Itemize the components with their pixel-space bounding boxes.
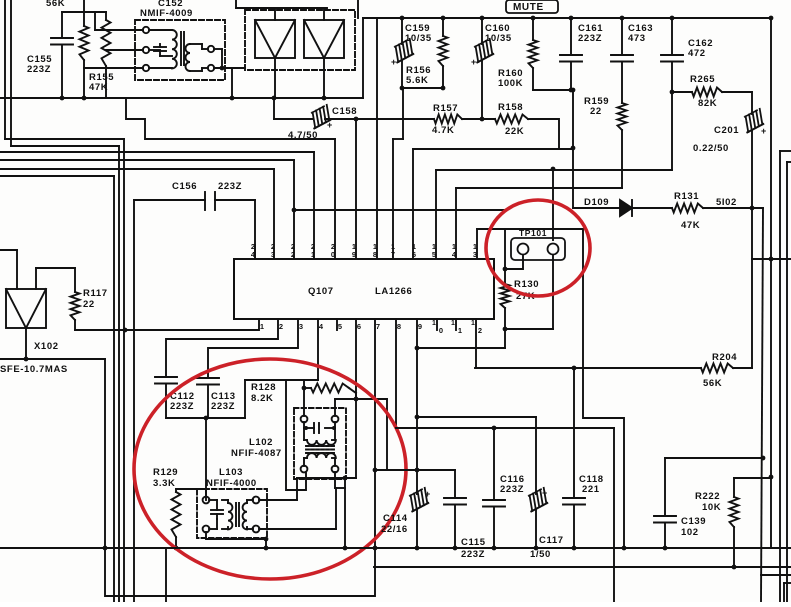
svg-text:3: 3 (271, 250, 275, 259)
crystal filter X102 (6, 289, 46, 328)
inductor L102 box (294, 408, 346, 479)
svg-text:R265: R265 (690, 74, 715, 85)
wire (176, 489, 206, 497)
svg-text:4.7/50: 4.7/50 (288, 130, 318, 141)
svg-text:9: 9 (352, 250, 356, 259)
capacitor C163 (611, 18, 633, 103)
wire (323, 58, 325, 98)
wire (206, 532, 268, 550)
label C158 (288, 106, 357, 141)
svg-text:4.7K: 4.7K (432, 125, 454, 136)
label R129 (153, 467, 178, 489)
svg-text:+: + (391, 57, 396, 67)
inductor L103 internals (209, 500, 253, 529)
svg-text:6: 6 (357, 322, 361, 331)
label C201 (693, 125, 739, 154)
label R130 (514, 279, 539, 302)
label C162 (688, 38, 713, 59)
capacitor C112 (155, 377, 177, 418)
wire pin7 long drop (373, 319, 378, 567)
inductor L103 box (197, 489, 267, 538)
wire (475, 366, 701, 371)
wire pin24 drop (254, 200, 256, 259)
filter C152 internals (149, 30, 208, 71)
wire (393, 88, 403, 139)
wire y210 (294, 209, 505, 211)
svg-text:+: + (542, 488, 547, 498)
svg-text:1: 1 (458, 326, 462, 335)
inductor L103 terminals (203, 497, 260, 533)
label C155 (27, 54, 52, 75)
svg-text:L103: L103 (219, 467, 243, 478)
svg-text:56K: 56K (703, 378, 722, 389)
wire (0, 176, 114, 602)
svg-text:R157: R157 (433, 103, 458, 114)
wire pin20 drop (334, 139, 336, 259)
svg-text:223Z: 223Z (27, 64, 51, 75)
wire y188 (456, 187, 622, 189)
wire mute bus (363, 16, 773, 21)
svg-text:NMIF-4009: NMIF-4009 (140, 8, 193, 19)
svg-text:47K: 47K (681, 220, 700, 231)
resistor R157 (434, 115, 462, 124)
wire (106, 49, 143, 51)
svg-text:L102: L102 (249, 437, 273, 448)
resistor R129 (172, 489, 181, 550)
svg-text:22/16: 22/16 (381, 524, 408, 535)
svg-text:X102: X102 (34, 341, 59, 352)
label C117 (530, 535, 564, 560)
label R265 (690, 74, 717, 109)
capacitor C115 (444, 470, 466, 550)
wire (703, 206, 763, 211)
diode D109 (573, 200, 672, 216)
capacitor C114 (405, 488, 431, 551)
svg-text:8.2K: 8.2K (251, 393, 273, 404)
detector box (245, 10, 355, 70)
wire bus1 (0, 547, 791, 549)
wire pin22 drop (292, 160, 297, 259)
svg-text:223Z: 223Z (218, 181, 242, 192)
wire (0, 168, 274, 170)
svg-text:C158: C158 (332, 106, 357, 117)
capacitor C161 (560, 18, 582, 90)
wire pin15 drop (435, 170, 437, 259)
label 5I02 (716, 197, 737, 208)
label R156 (406, 65, 431, 86)
wire pin4 (317, 319, 319, 380)
resistor R204 (701, 364, 733, 373)
label C159 (405, 23, 432, 44)
label C116 (500, 474, 525, 495)
label R117 (83, 288, 108, 310)
label C163 (628, 23, 653, 44)
resistor R131 (672, 204, 703, 213)
svg-text:10/35: 10/35 (485, 33, 512, 44)
wire pin16 drop (413, 146, 575, 259)
svg-text:+: + (761, 126, 766, 136)
filter unit 2 (304, 20, 344, 58)
svg-text:TP101: TP101 (519, 228, 547, 238)
capacitor C162 (661, 18, 683, 170)
svg-text:2: 2 (478, 326, 482, 335)
wire (417, 329, 505, 348)
capacitor C158 (307, 105, 333, 130)
wire (356, 118, 434, 120)
label C161 (578, 23, 603, 44)
label C156 (172, 181, 242, 192)
wire (84, 67, 143, 69)
wire (769, 18, 774, 548)
wire pin ticks (254, 245, 256, 259)
svg-text:C117: C117 (539, 535, 564, 546)
label R160 (498, 68, 523, 89)
wire (343, 476, 348, 551)
label R204 (703, 352, 737, 389)
label R128 (251, 382, 276, 404)
wire (0, 151, 314, 153)
wire pin21 drop (313, 152, 315, 259)
wire (259, 488, 336, 529)
label R131 (674, 191, 700, 231)
wire pin23 drop (273, 169, 275, 259)
wire (236, 0, 358, 20)
wire (126, 98, 335, 139)
svg-text:7: 7 (391, 250, 395, 259)
wire (551, 167, 556, 240)
resistor R158 (495, 115, 528, 124)
svg-text:5I02: 5I02 (716, 197, 737, 208)
svg-text:223Z: 223Z (170, 401, 194, 412)
capacitor C159 (390, 18, 416, 88)
filter C152 box (135, 20, 225, 80)
label C118 (579, 474, 604, 495)
svg-text:Q107: Q107 (308, 286, 334, 297)
svg-text:1: 1 (471, 320, 475, 327)
svg-text:8: 8 (397, 322, 401, 331)
resistor R155 (80, 12, 89, 98)
svg-text:NFIF-4000: NFIF-4000 (206, 478, 257, 489)
svg-text:1: 1 (432, 320, 436, 327)
capacitor C116 (483, 428, 505, 550)
wire pin6 (354, 319, 359, 478)
wire y428 (396, 426, 614, 431)
wire (214, 66, 245, 71)
resistor R117 (71, 268, 80, 330)
wire pin17 drop (392, 139, 394, 259)
wire (784, 583, 791, 602)
label X102 (34, 341, 59, 352)
resistor R160 (529, 18, 538, 90)
wire (106, 567, 375, 596)
wire pin8 (395, 319, 397, 428)
svg-text:5.6K: 5.6K (406, 75, 428, 86)
svg-text:2: 2 (291, 250, 295, 259)
svg-text:R222: R222 (695, 491, 720, 502)
wire pin12 (475, 319, 477, 368)
label MUTE (506, 0, 558, 13)
svg-text:1: 1 (311, 250, 315, 259)
svg-text:R129: R129 (153, 467, 178, 478)
wire pin11 stub (455, 319, 457, 330)
svg-text:+: + (327, 120, 332, 130)
svg-text:82K: 82K (698, 98, 717, 109)
svg-text:0.22/50: 0.22/50 (693, 143, 729, 154)
resistor R128 (304, 384, 356, 400)
node left bus B (118, 146, 120, 602)
filter C152 terminals (143, 27, 214, 71)
capacitor C113 (197, 378, 219, 418)
wire pin13 drop (476, 229, 478, 259)
capacitor C156 (134, 192, 255, 210)
wire (734, 477, 771, 479)
label R222 (695, 491, 721, 513)
svg-text:R158: R158 (498, 102, 523, 113)
wire (780, 151, 791, 602)
svg-text:1/50: 1/50 (530, 549, 551, 560)
svg-text:D109: D109 (584, 197, 609, 208)
wire (462, 117, 495, 122)
wire (503, 255, 523, 271)
label R157 (432, 103, 458, 136)
svg-text:5: 5 (432, 250, 436, 259)
svg-text:22: 22 (83, 299, 95, 310)
wire pin14 drop (455, 188, 457, 259)
wire pin3 (208, 319, 298, 378)
IC bottom pin numbers (260, 320, 482, 335)
label C160 (485, 23, 512, 44)
svg-text:+: + (425, 489, 430, 499)
wire (245, 379, 318, 381)
wire (375, 469, 455, 471)
wire pin10 stub (436, 319, 438, 330)
capacitor C201 (740, 92, 766, 208)
wire (505, 255, 553, 329)
svg-text:LA1266: LA1266 (375, 286, 412, 297)
wire (752, 257, 791, 262)
wire pin9 (415, 319, 420, 494)
wire bus (0, 96, 363, 101)
test point TP101 (511, 238, 565, 260)
label C139 (681, 516, 706, 538)
label C114 (381, 513, 408, 535)
wire (83, 0, 85, 12)
wire TP101 corridor (477, 229, 626, 550)
capacitor C160 (470, 18, 496, 119)
wire pin18 drop (376, 18, 378, 259)
svg-text:3.3K: 3.3K (153, 478, 175, 489)
wire (36, 268, 75, 289)
svg-text:C201: C201 (714, 125, 739, 136)
capacitor C155 (51, 12, 73, 98)
svg-text:7: 7 (376, 322, 380, 331)
resistor R159 (618, 103, 627, 188)
svg-text:SFE-10.7MAS: SFE-10.7MAS (0, 364, 68, 375)
wire y170 right (436, 169, 672, 171)
svg-text:NFIF-4087: NFIF-4087 (231, 448, 282, 459)
svg-text:223Z: 223Z (578, 33, 602, 44)
svg-text:0: 0 (331, 250, 335, 259)
svg-text:473: 473 (628, 33, 646, 44)
svg-text:10K: 10K (702, 502, 721, 513)
svg-text:102: 102 (681, 527, 699, 538)
filter unit 1 (255, 20, 295, 58)
svg-text:+: + (471, 57, 476, 67)
node left bus D (133, 200, 135, 602)
svg-text:9: 9 (418, 322, 422, 331)
label TP101 (519, 228, 547, 238)
svg-text:100K: 100K (498, 78, 523, 89)
label D109 (584, 197, 609, 208)
resistor (102, 12, 111, 98)
resistor R222 (730, 478, 739, 569)
wire pin5 stub (336, 319, 338, 330)
wire (274, 58, 276, 98)
wire riser (362, 18, 364, 98)
wire (751, 208, 753, 368)
IC Q107 LA1266 (234, 259, 494, 319)
wire (165, 548, 167, 602)
label C152 (140, 0, 193, 19)
wire (0, 359, 107, 596)
capacitor C139 (654, 458, 676, 550)
wire (356, 399, 387, 470)
wire (205, 418, 207, 500)
svg-text:56K: 56K (46, 0, 65, 9)
wire (761, 208, 791, 602)
annotation red ellipse (134, 359, 406, 579)
wire (335, 399, 356, 416)
wire (572, 90, 574, 208)
wire (166, 416, 245, 421)
svg-text:10/35: 10/35 (405, 33, 432, 44)
svg-text:C114: C114 (383, 513, 408, 524)
wire (733, 367, 752, 369)
wire pin1 (75, 319, 259, 332)
wire (665, 456, 765, 461)
wire (528, 119, 559, 148)
svg-text:223Z: 223Z (211, 401, 235, 412)
svg-text:221: 221 (582, 484, 600, 495)
wire pin2 (166, 319, 278, 377)
svg-text:C115: C115 (461, 537, 486, 548)
wire (244, 380, 246, 418)
svg-text:R131: R131 (674, 191, 699, 202)
label L103 (206, 467, 257, 489)
label SFE (0, 364, 68, 375)
svg-text:R117: R117 (83, 288, 108, 299)
wire (95, 12, 143, 30)
svg-text:3: 3 (299, 322, 303, 331)
resistor R265 (670, 88, 752, 97)
svg-text:1: 1 (260, 322, 264, 331)
inductor L102 internals (304, 422, 336, 466)
svg-text:3: 3 (473, 250, 477, 259)
svg-text:22K: 22K (505, 126, 524, 137)
svg-text:223Z: 223Z (500, 484, 524, 495)
svg-text:R204: R204 (712, 352, 737, 363)
svg-text:5: 5 (338, 322, 342, 331)
svg-text:472: 472 (688, 48, 706, 59)
resistor R130 (501, 284, 510, 331)
inductor L102 terminals (301, 416, 339, 473)
svg-text:R130: R130 (514, 279, 539, 290)
label 56K (46, 0, 65, 9)
capacitor C118 (563, 368, 585, 550)
wire (504, 229, 506, 284)
wire (613, 428, 615, 602)
label R159 (584, 96, 609, 117)
wire (0, 159, 294, 161)
wire bus2 (374, 566, 791, 568)
wire (286, 380, 306, 490)
label L102 (231, 437, 282, 459)
wire (274, 98, 313, 119)
label R158 (498, 102, 524, 137)
wire (335, 472, 345, 488)
wire pin19 drop (355, 119, 357, 259)
svg-text:0: 0 (439, 326, 443, 335)
IC top pin numbers (251, 242, 477, 259)
wire (5, 0, 124, 139)
svg-text:6: 6 (412, 250, 416, 259)
wire (11, 0, 119, 146)
resistor R156 (439, 18, 448, 88)
wire (214, 49, 232, 98)
wire (24, 328, 29, 361)
capacitor C117 (524, 488, 550, 551)
svg-text:1: 1 (451, 320, 455, 327)
svg-text:R128: R128 (251, 382, 276, 393)
svg-text:8: 8 (373, 250, 377, 259)
svg-text:C156: C156 (172, 181, 197, 192)
wire (259, 478, 356, 500)
label R155 (89, 72, 114, 93)
wire (62, 11, 106, 13)
label C112 (170, 391, 195, 412)
annotation red circle TP101 (486, 200, 590, 296)
wire (325, 117, 358, 122)
svg-text:2: 2 (279, 322, 283, 331)
wire (533, 88, 575, 93)
label C115 (461, 537, 486, 560)
svg-text:223Z: 223Z (461, 549, 485, 560)
node left bus A (123, 139, 125, 602)
svg-text:MUTE: MUTE (513, 2, 544, 13)
svg-text:22: 22 (590, 106, 602, 117)
wire (787, 162, 791, 602)
label C113 (211, 391, 236, 412)
wire (417, 417, 536, 494)
wire (302, 380, 307, 416)
wire (400, 86, 446, 91)
svg-text:C139: C139 (681, 516, 706, 527)
wire (0, 250, 17, 289)
